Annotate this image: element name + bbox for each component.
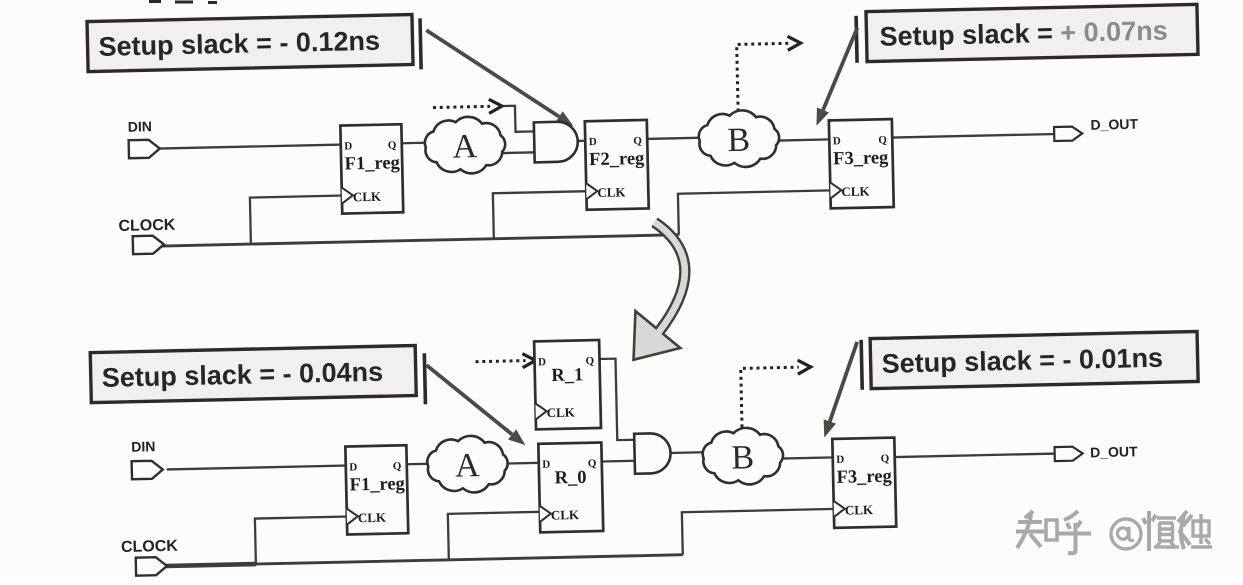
svg-text:CLOCK: CLOCK [121, 538, 179, 556]
wire F1_reg Q to cloud A (bottom) [407, 462, 444, 465]
svg-text:F2_reg: F2_reg [589, 149, 645, 170]
svg-text:Setup slack = - 0.04ns: Setup slack = - 0.04ns [101, 357, 383, 393]
svg-text:Setup slack = - 0.12ns: Setup slack = - 0.12ns [98, 26, 380, 62]
big curved transform arrow between diagrams [631, 222, 687, 360]
svg-text:CLK: CLK [353, 189, 382, 205]
port DIN (bottom) [131, 438, 163, 479]
wire CLOCK trunk (top) [162, 235, 679, 246]
wire clock branch to F2_reg CLK (top) [493, 191, 589, 239]
wire clock branch to F1_reg CLK (bottom) [255, 517, 350, 565]
svg-text:A: A [452, 128, 478, 166]
tick bar beside top-left slack box [420, 18, 421, 69]
wire cloud B to F3_reg D (top) [773, 139, 831, 140]
thick CLOCK stub at bottom pentagon [166, 564, 256, 566]
svg-text:Q: Q [388, 139, 397, 151]
svg-text:DIN: DIN [131, 438, 155, 455]
svg-text:Setup slack = + 0.07ns: Setup slack = + 0.07ns [879, 16, 1168, 52]
svg-text:CLK: CLK [597, 184, 626, 200]
cloud A (combinational logic, bottom) [427, 435, 508, 493]
svg-text:R_1: R_1 [551, 365, 583, 386]
svg-text:A: A [455, 447, 481, 485]
tick bar beside bottom-left slack box [424, 353, 425, 404]
port CLOCK (top) [118, 217, 176, 255]
wire clock branch to F3_reg CLK (top) [678, 190, 833, 234]
AND gate U2 (bottom) [634, 433, 671, 474]
dotted arrow into R_1 D (bottom) [476, 361, 526, 362]
wire R_0 Q to AND gate lower input (bottom) [602, 460, 637, 463]
svg-text:B: B [727, 122, 750, 159]
svg-text:Q: Q [878, 134, 887, 146]
cloud B (combinational logic, top) [698, 110, 779, 168]
wire clock branch to F3_reg CLK (bottom) [682, 509, 837, 555]
cloud B (combinational logic, bottom) [702, 427, 783, 485]
label box: Setup slack = - 0.12ns (top-left) [87, 15, 413, 72]
svg-text:D: D [542, 459, 550, 471]
wire clock branch to F1_reg CLK (top) [250, 196, 345, 245]
svg-text:CLK: CLK [845, 502, 874, 518]
wire F3_reg Q to D_OUT (bottom) [896, 454, 1057, 458]
svg-text:F1_reg: F1_reg [344, 153, 400, 174]
svg-text:B: B [731, 439, 754, 476]
wire clock branch to R_0 CLK (bottom) [448, 512, 543, 560]
flip-flop F3_reg (bottom) [832, 438, 896, 528]
svg-text:D_OUT: D_OUT [1090, 443, 1138, 460]
wire cloud A to R_0 D (bottom) [499, 462, 541, 465]
wire F3_reg Q to D_OUT (top) [892, 134, 1057, 138]
svg-text:CLK: CLK [358, 510, 387, 526]
cloud A (combinational logic, top) [424, 116, 505, 174]
AND gate U1 (top) [534, 121, 578, 162]
arrow from bottom-left slack box to R_0 D input [427, 363, 513, 436]
wire F1_reg Q to cloud A (top) [402, 141, 437, 144]
watermark: zhihu @shendu [1016, 511, 1212, 553]
label box: Setup slack = - 0.01ns (bottom-right) [870, 331, 1198, 388]
flip-flop R_0 (retimed register, bottom) [538, 442, 603, 532]
svg-text:Q: Q [393, 460, 402, 472]
svg-text:Q: Q [588, 458, 597, 470]
svg-text:D: D [589, 136, 597, 148]
svg-text:CLK: CLK [546, 405, 575, 421]
tick bar beside top-right slack box [856, 16, 857, 63]
label box: Setup slack = - 0.04ns (bottom-left) [90, 346, 416, 403]
wire cloud B to F3_reg D (bottom) [775, 457, 835, 458]
arrow from top-right slack box to F3_reg D input [821, 28, 859, 110]
port CLOCK (bottom) [121, 538, 179, 576]
svg-text:D: D [538, 356, 546, 368]
svg-text:F3_reg: F3_reg [833, 148, 889, 169]
wire DIN to F1_reg D (top) [158, 145, 343, 149]
wire F2_reg Q to cloud B (top) [647, 138, 709, 139]
arrow from top-left slack box to F2_reg D input [426, 27, 559, 119]
wire DIN to F1_reg D (bottom) [167, 466, 348, 470]
wire CLOCK trunk (bottom) [166, 555, 683, 566]
svg-text:F3_reg: F3_reg [836, 467, 892, 488]
wire elbow from dotted arrow to AND gate upper input (top) [500, 105, 536, 132]
svg-text:CLK: CLK [841, 184, 870, 200]
svg-text:D_OUT: D_OUT [1090, 116, 1138, 133]
dotted elbow arrow over cloud B (bottom) [741, 367, 800, 427]
flip-flop R_1 (retimed register, bottom) [534, 340, 601, 429]
scan artifact: cropped text at top edge [149, 2, 217, 3]
dotted elbow arrow over cloud B (top) [737, 43, 790, 111]
wire AND output to cloud B (bottom) [670, 451, 710, 454]
svg-text:F1_reg: F1_reg [349, 474, 405, 495]
svg-text:CLK: CLK [551, 507, 580, 523]
label box: Setup slack = + 0.07ns (top-right) [866, 4, 1198, 61]
flip-flop F1_reg (top) [340, 124, 403, 213]
svg-text:D: D [836, 454, 844, 466]
svg-text:D: D [349, 461, 357, 473]
svg-text:CLOCK: CLOCK [118, 217, 176, 235]
svg-text:D: D [833, 135, 841, 147]
wire R_1 Q down to AND gate upper input (bottom) [599, 358, 636, 440]
svg-text:Setup slack = - 0.01ns: Setup slack = - 0.01ns [881, 343, 1163, 379]
port D_OUT (top) [1054, 116, 1139, 141]
svg-text:Q: Q [585, 355, 594, 367]
tick bar beside bottom-right slack box [861, 340, 862, 390]
svg-text:Q: Q [633, 135, 642, 147]
flip-flop F3_reg (top) [829, 119, 894, 208]
flip-flop F1_reg (bottom) [345, 445, 408, 534]
svg-text:R_0: R_0 [554, 468, 586, 489]
wire cloud A to AND gate lower input (top) [492, 151, 536, 154]
svg-text:DIN: DIN [128, 118, 152, 135]
port DIN (top) [128, 118, 160, 158]
flip-flop F2_reg (top) [585, 120, 649, 210]
svg-text:D: D [344, 140, 352, 152]
arrow from bottom-right slack box to F3_reg D input [828, 342, 859, 422]
dotted arrow into AND region (top) [433, 106, 490, 107]
svg-text:Q: Q [881, 453, 890, 465]
port D_OUT (bottom) [1054, 443, 1138, 461]
wire AND output to F2_reg D (top) [577, 140, 587, 143]
